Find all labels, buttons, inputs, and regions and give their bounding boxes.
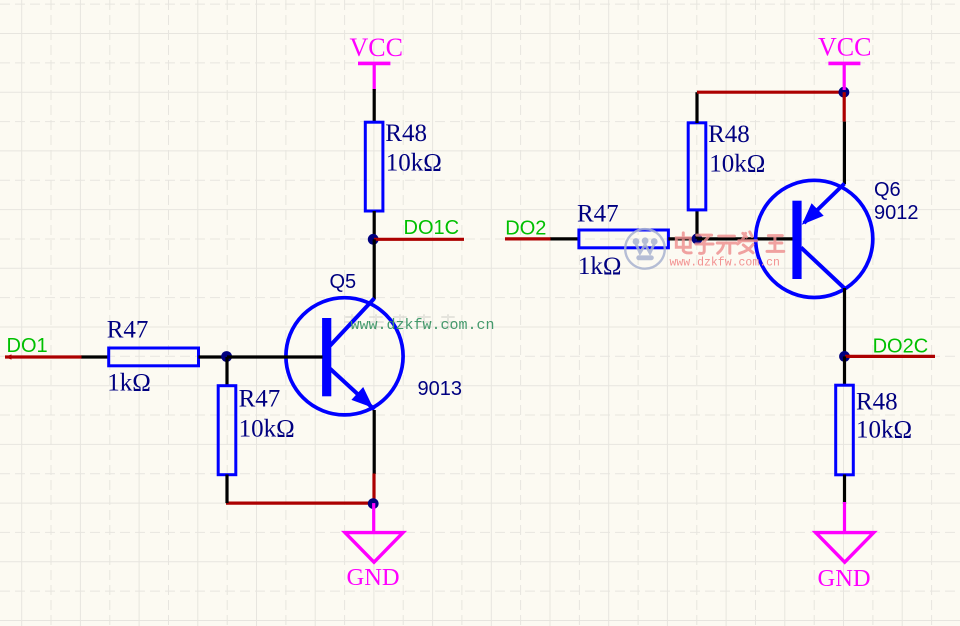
- wire net DO2 (red stub): [505, 237, 551, 240]
- wire base node to Q5 base: [227, 355, 323, 358]
- wire/pin into R47 (right series): [551, 237, 580, 240]
- wire to Q6 emitter (black): [843, 122, 846, 184]
- power symbol VCC (right): [818, 33, 871, 91]
- svg-text:R47: R47: [107, 316, 149, 343]
- svg-text:R48: R48: [856, 389, 898, 416]
- wire/pin R47 to base node (right): [668, 237, 697, 240]
- wire R48 up to VCC net (right): [695, 92, 698, 123]
- svg-text:R48: R48: [385, 120, 427, 147]
- svg-text:9012: 9012: [874, 202, 919, 224]
- resistor R48 (left pull-up): [365, 120, 442, 211]
- svg-text:GND: GND: [347, 564, 400, 591]
- svg-text:VCC: VCC: [350, 33, 403, 62]
- wire R48 to ground (right): [843, 475, 846, 505]
- wire base node down to R47 pulldown: [225, 357, 228, 386]
- svg-text:VCC: VCC: [818, 33, 871, 62]
- transistor Q5 9013: [286, 298, 403, 415]
- resistor R47 (left pulldown 10k): [218, 386, 294, 475]
- wire collector to node (left): [373, 239, 376, 299]
- node DO2C junction dot: [839, 351, 850, 362]
- svg-text:Q6: Q6: [874, 179, 901, 201]
- svg-text:www.dzkfw.com.cn: www.dzkfw.com.cn: [670, 257, 780, 270]
- wire/pin R47 to base node: [199, 355, 228, 358]
- wire emitter to gnd node (red): [372, 474, 375, 504]
- svg-text:10kΩ: 10kΩ: [239, 416, 295, 443]
- wire gnd net horizontal (red): [226, 502, 374, 505]
- svg-text:DO1C: DO1C: [404, 217, 460, 239]
- wire base node up to R48 (right): [695, 210, 698, 239]
- svg-text:DO2C: DO2C: [873, 336, 929, 358]
- svg-text:10kΩ: 10kΩ: [386, 150, 442, 177]
- wire net DO1 (red stub): [5, 355, 82, 358]
- wire emitter down (left, black): [373, 410, 376, 474]
- transistor Q6 9012: [756, 180, 873, 297]
- wire VCC node down (red): [843, 92, 846, 121]
- node VCC junction dot (right): [839, 87, 850, 98]
- watermark logo circle (center): [625, 229, 665, 269]
- svg-text:9013: 9013: [418, 378, 463, 400]
- svg-text:R47: R47: [577, 200, 619, 227]
- power symbol VCC (left): [350, 33, 403, 91]
- svg-text:R48: R48: [708, 121, 750, 148]
- svg-text:DO1: DO1: [7, 335, 48, 357]
- wire/pin into R47 (left series): [82, 355, 110, 358]
- node DO1C junction dot: [368, 234, 379, 245]
- svg-text:Q5: Q5: [330, 271, 357, 293]
- wire node to R48 (bottom right): [843, 356, 846, 385]
- svg-text:10kΩ: 10kΩ: [709, 151, 765, 178]
- svg-text:DO2: DO2: [505, 218, 546, 240]
- wire VCC net horizontal (red): [697, 91, 844, 94]
- wire VCC to R48 (left): [373, 89, 376, 123]
- ground symbol GND (left): [345, 503, 403, 591]
- node gnd junction dot (left): [368, 498, 379, 509]
- resistor R47 (left series 1k): [107, 316, 199, 396]
- wire R48 to collector node (left): [373, 211, 376, 239]
- svg-text:1kΩ: 1kΩ: [107, 370, 151, 397]
- resistor R48 (right pulldown 10k): [836, 385, 912, 475]
- svg-text:10kΩ: 10kΩ: [856, 417, 912, 444]
- svg-text:R47: R47: [239, 386, 281, 413]
- node base junction dot (right): [692, 234, 703, 245]
- wire base node to Q6 base: [697, 237, 793, 240]
- svg-text:GND: GND: [818, 565, 871, 592]
- resistor R48 (right, to VCC): [688, 121, 765, 210]
- wire net DO2C (red stub): [845, 355, 935, 358]
- wire Q6 collector down: [843, 288, 846, 356]
- wire net DO1C (red stub): [374, 238, 464, 241]
- watermark chinese characters (center, pink): [676, 232, 783, 254]
- faint gray watermark characters (left): [345, 315, 455, 329]
- resistor R47 (right series 1k): [577, 200, 668, 280]
- svg-text:1kΩ: 1kΩ: [578, 253, 622, 280]
- ground symbol GND (right): [816, 502, 874, 592]
- node base junction dot (left): [221, 351, 232, 362]
- wire R47 pulldown to gnd net: [225, 475, 228, 504]
- svg-text:www.dzkfw.com.cn: www.dzkfw.com.cn: [351, 317, 495, 334]
